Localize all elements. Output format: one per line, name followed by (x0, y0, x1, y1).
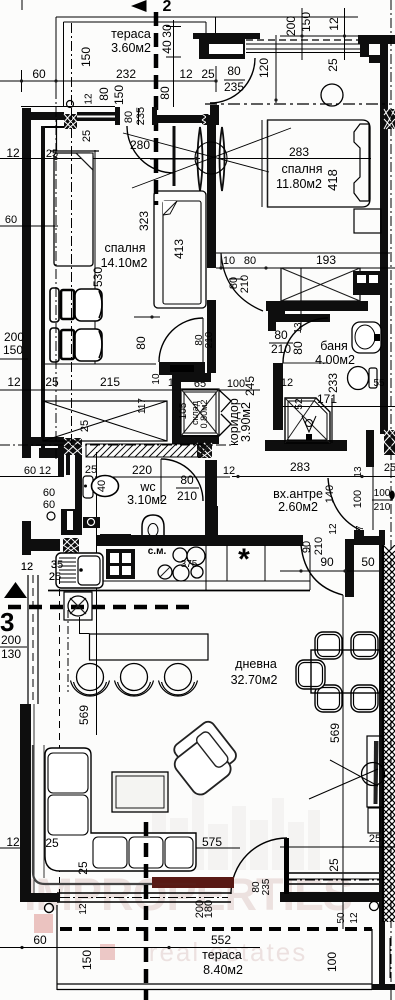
svg-text:25: 25 (326, 58, 340, 72)
svg-text:4.00м2: 4.00м2 (315, 353, 355, 367)
svg-text:12: 12 (328, 523, 339, 535)
svg-text:12: 12 (327, 17, 341, 31)
svg-text:80: 80 (97, 87, 111, 101)
svg-text:80: 80 (134, 336, 148, 350)
svg-text:3.60м2: 3.60м2 (111, 41, 151, 55)
svg-text:14.10м2: 14.10м2 (101, 256, 148, 270)
svg-text:140: 140 (324, 485, 336, 503)
svg-text:2: 2 (163, 0, 172, 15)
svg-text:150: 150 (3, 343, 23, 357)
svg-text:вх.антре: вх.антре (273, 487, 323, 501)
svg-text:25: 25 (369, 833, 381, 845)
svg-text:12: 12 (84, 93, 95, 105)
svg-text:13: 13 (353, 466, 364, 478)
svg-text:25: 25 (79, 420, 91, 432)
svg-text:30: 30 (160, 24, 174, 38)
svg-text:баня: баня (320, 339, 348, 353)
svg-text:80: 80 (123, 111, 135, 123)
svg-text:25: 25 (76, 861, 90, 875)
svg-text:323: 323 (137, 211, 151, 231)
svg-text:552: 552 (211, 933, 231, 947)
svg-text:245: 245 (243, 376, 257, 396)
svg-text:12: 12 (6, 835, 20, 849)
svg-text:232: 232 (116, 67, 136, 81)
svg-text:11.80м2: 11.80м2 (276, 177, 322, 191)
svg-text:569: 569 (77, 705, 91, 725)
svg-text:60: 60 (43, 487, 55, 499)
svg-text:32.70м2: 32.70м2 (231, 673, 278, 687)
svg-text:80: 80 (291, 341, 305, 355)
svg-text:*: * (238, 543, 250, 576)
svg-text:8.40м2: 8.40м2 (203, 963, 243, 977)
svg-text:10: 10 (223, 255, 235, 267)
svg-text:60: 60 (32, 67, 46, 81)
svg-text:25: 25 (49, 571, 61, 583)
svg-text:80: 80 (227, 64, 241, 78)
svg-text:117: 117 (137, 398, 148, 414)
svg-text:12: 12 (281, 377, 293, 389)
svg-text:210: 210 (313, 537, 325, 555)
svg-text:418: 418 (325, 169, 340, 191)
svg-text:80: 80 (244, 255, 256, 267)
svg-text:25: 25 (201, 67, 215, 81)
svg-text:413: 413 (172, 239, 186, 259)
svg-text:150: 150 (80, 950, 94, 970)
svg-text:100: 100 (352, 490, 364, 508)
svg-text:55: 55 (373, 378, 385, 389)
svg-text:200: 200 (4, 330, 24, 344)
svg-text:50: 50 (336, 912, 347, 924)
svg-text:12: 12 (78, 903, 89, 915)
svg-text:wc: wc (139, 480, 155, 494)
svg-text:180: 180 (203, 900, 215, 918)
svg-text:2.60м2: 2.60м2 (278, 500, 318, 514)
svg-text:12: 12 (179, 67, 193, 81)
svg-text:25: 25 (45, 836, 59, 850)
svg-text:193: 193 (316, 253, 336, 267)
svg-text:40: 40 (160, 40, 174, 54)
svg-text:52: 52 (294, 398, 305, 410)
svg-text:80: 80 (180, 473, 194, 487)
svg-text:с.м.: с.м. (148, 546, 167, 557)
svg-text:150: 150 (112, 85, 126, 105)
svg-text:50: 50 (361, 555, 375, 569)
svg-text:60: 60 (43, 499, 55, 511)
svg-text:60: 60 (33, 933, 47, 947)
svg-text:235: 235 (261, 878, 272, 895)
svg-text:3: 3 (0, 607, 14, 637)
svg-text:210: 210 (374, 502, 391, 513)
svg-text:тераса: тераса (202, 948, 242, 962)
svg-text:280: 280 (130, 138, 150, 152)
svg-text:530: 530 (91, 267, 105, 287)
svg-text:25: 25 (384, 462, 395, 474)
svg-text:200: 200 (284, 16, 298, 36)
svg-text:60: 60 (24, 465, 36, 477)
svg-text:171: 171 (317, 392, 337, 406)
svg-text:120: 120 (257, 58, 271, 78)
svg-text:220: 220 (132, 463, 152, 477)
svg-text:90: 90 (301, 541, 313, 553)
svg-text:210: 210 (271, 342, 291, 356)
svg-text:130: 130 (1, 647, 21, 661)
svg-text:60: 60 (5, 214, 17, 226)
svg-text:спалня: спалня (105, 241, 146, 255)
svg-text:12: 12 (7, 375, 21, 389)
svg-text:дневна: дневна (235, 657, 277, 671)
svg-text:13: 13 (293, 322, 304, 334)
svg-text:25: 25 (327, 858, 341, 872)
svg-text:210: 210 (239, 275, 251, 293)
svg-text:12: 12 (349, 912, 360, 924)
svg-text:233: 233 (326, 373, 340, 393)
svg-text:3.90м2: 3.90м2 (239, 402, 253, 442)
svg-text:575: 575 (202, 835, 222, 849)
svg-text:100: 100 (374, 488, 391, 499)
svg-text:25: 25 (85, 464, 97, 476)
svg-text:235: 235 (224, 80, 244, 94)
svg-text:3.10м2: 3.10м2 (127, 493, 167, 507)
svg-text:12: 12 (6, 146, 20, 160)
svg-text:283: 283 (290, 460, 310, 474)
svg-text:210: 210 (204, 331, 215, 348)
svg-text:90: 90 (320, 555, 334, 569)
svg-text:25: 25 (81, 130, 93, 142)
svg-text:100: 100 (325, 952, 339, 972)
svg-text:спалня: спалня (282, 162, 323, 176)
svg-text:0.80м2: 0.80м2 (199, 400, 209, 429)
svg-text:283: 283 (289, 145, 309, 159)
svg-text:375: 375 (181, 559, 198, 570)
svg-text:150: 150 (299, 12, 313, 32)
svg-text:235: 235 (135, 107, 147, 125)
svg-text:35: 35 (51, 559, 63, 571)
svg-text:40: 40 (96, 480, 108, 492)
svg-text:80: 80 (274, 328, 288, 342)
svg-text:тераса: тераса (111, 27, 151, 41)
svg-text:12: 12 (39, 465, 51, 477)
svg-text:12: 12 (223, 465, 235, 477)
svg-text:105: 105 (178, 402, 189, 419)
svg-text:569: 569 (328, 723, 342, 743)
svg-text:80: 80 (158, 86, 172, 100)
svg-text:25: 25 (45, 375, 59, 389)
svg-text:210: 210 (177, 489, 197, 503)
svg-text:150: 150 (79, 47, 93, 67)
svg-text:12: 12 (21, 561, 33, 573)
svg-text:215: 215 (100, 375, 120, 389)
